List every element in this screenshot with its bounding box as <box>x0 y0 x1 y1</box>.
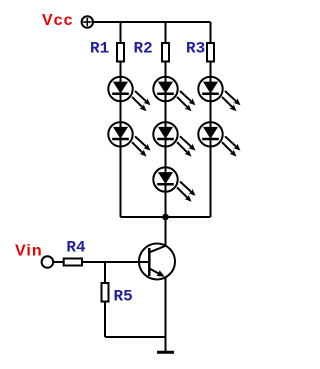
svg-text:R3: R3 <box>186 40 205 58</box>
svg-text:Vcc: Vcc <box>42 12 73 29</box>
svg-text:R5: R5 <box>114 287 133 305</box>
svg-text:R1: R1 <box>90 40 109 58</box>
svg-text:Vin: Vin <box>15 242 43 259</box>
svg-text:R4: R4 <box>66 239 86 257</box>
svg-text:R2: R2 <box>134 40 153 58</box>
